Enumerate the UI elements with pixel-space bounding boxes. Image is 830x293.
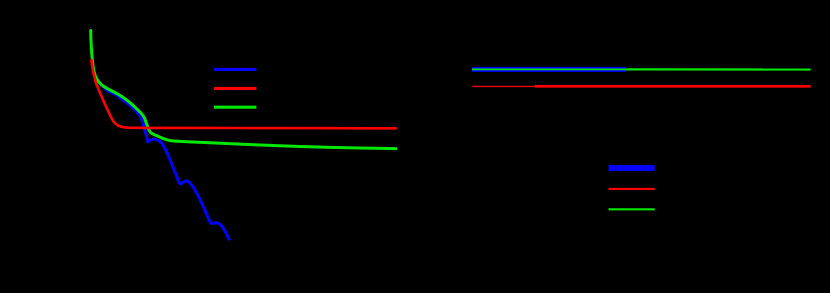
right legend green swatch — [609, 208, 655, 210]
right plot green line continuation (right half of top line) — [626, 68, 811, 70]
right plot blue line (thick, left half of top line) — [472, 67, 626, 72]
right legend blue swatch (thick) — [609, 165, 655, 171]
right plot red line thick right segment — [535, 85, 811, 88]
right plot green line thin core over blue — [472, 68, 626, 70]
right legend red swatch — [609, 188, 655, 190]
right plot red line thin left segment — [472, 85, 535, 87]
left plot blue curve (wiggly descending) — [92, 61, 229, 239]
left plot red curve (steep drop to flat plateau) — [91, 60, 396, 128]
left legend blue swatch — [214, 68, 257, 71]
left legend green swatch — [214, 106, 257, 109]
left legend red swatch — [214, 87, 257, 90]
left plot green curve (descends then long gentle tail) — [91, 31, 396, 149]
